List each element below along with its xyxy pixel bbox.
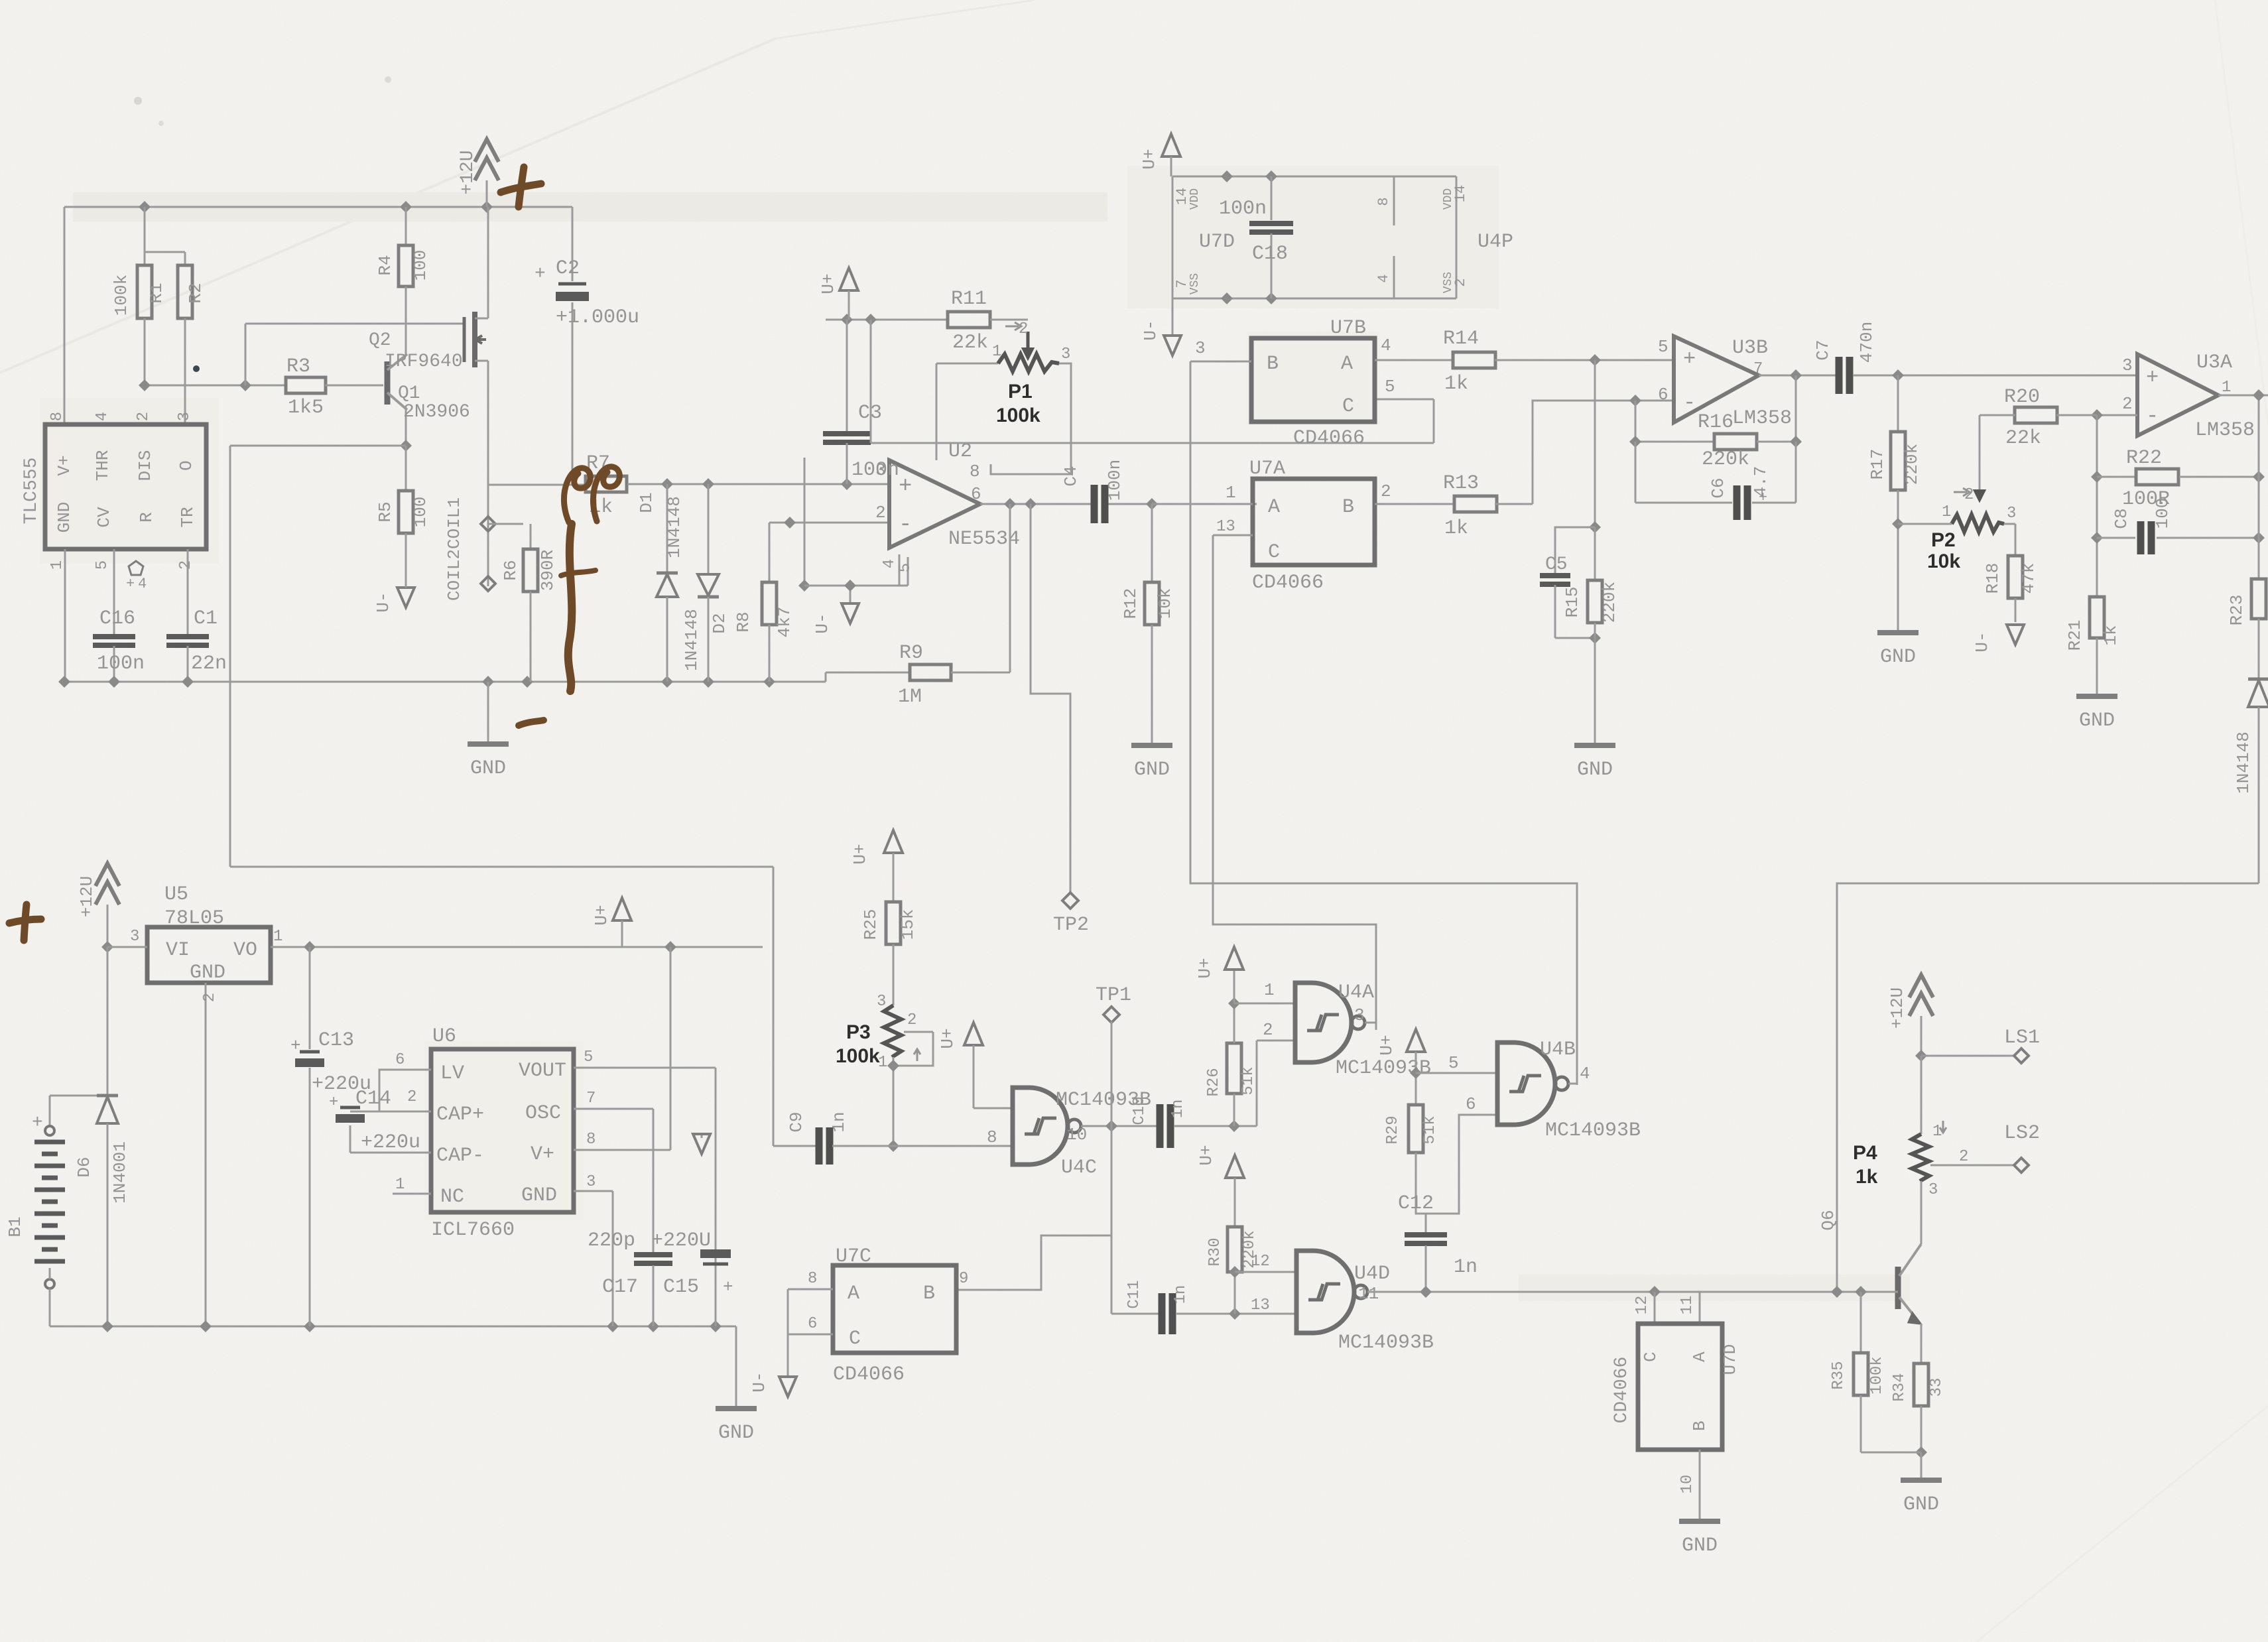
svg-text:U-: U- bbox=[1972, 631, 1992, 652]
svg-text:U-: U- bbox=[812, 613, 832, 633]
svg-text:C5: C5 bbox=[1545, 554, 1568, 575]
svg-text:1n: 1n bbox=[1172, 1285, 1190, 1304]
svg-text:12: 12 bbox=[1633, 1296, 1651, 1315]
svg-text:22n: 22n bbox=[191, 653, 227, 675]
svg-text:2: 2 bbox=[1959, 1148, 1968, 1166]
svg-text:C: C bbox=[1268, 541, 1280, 564]
svg-text:TLC555: TLC555 bbox=[21, 458, 42, 525]
svg-text:-: - bbox=[1683, 391, 1696, 415]
svg-text:U+: U+ bbox=[592, 905, 611, 925]
svg-text:R3: R3 bbox=[286, 355, 310, 378]
svg-text:A: A bbox=[1268, 496, 1280, 519]
svg-text:B: B bbox=[923, 1283, 935, 1305]
svg-text:C: C bbox=[849, 1328, 861, 1350]
svg-text:220k: 220k bbox=[1600, 582, 1619, 623]
svg-text:1: 1 bbox=[273, 928, 283, 946]
svg-text:+: + bbox=[126, 576, 135, 592]
svg-text:4: 4 bbox=[1375, 274, 1392, 283]
svg-text:CAP+: CAP+ bbox=[436, 1104, 484, 1126]
svg-text:15k: 15k bbox=[898, 909, 918, 940]
svg-text:U3B: U3B bbox=[1732, 337, 1768, 359]
svg-text:5: 5 bbox=[584, 1048, 593, 1066]
svg-text:U4D: U4D bbox=[1354, 1263, 1390, 1285]
svg-text:GND: GND bbox=[718, 1422, 754, 1444]
svg-text:ICL7660: ICL7660 bbox=[431, 1219, 515, 1241]
svg-text:11: 11 bbox=[1358, 1284, 1379, 1304]
svg-text:10k: 10k bbox=[1927, 550, 1960, 572]
svg-text:1N4148: 1N4148 bbox=[2234, 731, 2253, 794]
svg-text:1: 1 bbox=[395, 1176, 405, 1194]
svg-text:+: + bbox=[32, 1113, 43, 1133]
svg-text:3: 3 bbox=[877, 993, 886, 1011]
svg-text:R26: R26 bbox=[1205, 1068, 1223, 1096]
svg-text:220k: 220k bbox=[1702, 448, 1749, 471]
svg-text:11: 11 bbox=[1678, 1296, 1696, 1315]
svg-text:3: 3 bbox=[1195, 338, 1206, 358]
svg-text:+: + bbox=[1683, 347, 1696, 371]
svg-text:GND: GND bbox=[1577, 759, 1613, 781]
svg-text:U7D: U7D bbox=[1720, 1344, 1740, 1375]
svg-text:4: 4 bbox=[1381, 336, 1391, 355]
svg-text:100n: 100n bbox=[1105, 460, 1125, 501]
svg-text:100n: 100n bbox=[851, 459, 899, 481]
svg-text:R8: R8 bbox=[733, 611, 753, 632]
svg-text:2: 2 bbox=[1381, 481, 1391, 501]
svg-text:+: + bbox=[723, 1277, 733, 1297]
svg-text:100: 100 bbox=[410, 250, 430, 281]
svg-text:R9: R9 bbox=[899, 642, 923, 664]
svg-text:12: 12 bbox=[1251, 1253, 1270, 1271]
svg-text:VSS: VSS bbox=[1442, 272, 1455, 293]
svg-text:5: 5 bbox=[1658, 337, 1669, 357]
svg-text:GND: GND bbox=[521, 1184, 557, 1207]
svg-text:C13: C13 bbox=[318, 1029, 354, 1052]
svg-text:GND: GND bbox=[470, 757, 506, 780]
svg-text:1: 1 bbox=[1932, 1123, 1942, 1141]
svg-text:6: 6 bbox=[808, 1315, 817, 1333]
svg-text:1n: 1n bbox=[1169, 1100, 1187, 1119]
svg-text:1k: 1k bbox=[1444, 517, 1468, 540]
svg-text:P3: P3 bbox=[846, 1021, 871, 1043]
svg-text:U7A: U7A bbox=[1249, 458, 1285, 480]
svg-text:100k: 100k bbox=[1868, 1356, 1886, 1395]
svg-text:R17: R17 bbox=[1867, 449, 1887, 480]
svg-text:2: 2 bbox=[1019, 320, 1028, 338]
svg-text:R23: R23 bbox=[2227, 595, 2247, 626]
svg-text:C7: C7 bbox=[1813, 340, 1833, 360]
svg-text:GND: GND bbox=[1682, 1535, 1718, 1557]
svg-text:1k: 1k bbox=[1856, 1166, 1878, 1188]
svg-text:1k: 1k bbox=[1444, 373, 1468, 395]
svg-text:1M: 1M bbox=[898, 686, 922, 708]
svg-text:CD4066: CD4066 bbox=[1611, 1357, 1632, 1424]
svg-text:R2: R2 bbox=[186, 283, 206, 303]
svg-text:U-: U- bbox=[1141, 320, 1161, 340]
svg-text:C17: C17 bbox=[602, 1276, 638, 1298]
svg-text:R12: R12 bbox=[1121, 588, 1141, 619]
svg-text:R5: R5 bbox=[375, 501, 395, 522]
svg-text:10: 10 bbox=[1678, 1475, 1696, 1494]
svg-text:R29: R29 bbox=[1384, 1115, 1402, 1144]
svg-text:2N3906: 2N3906 bbox=[403, 402, 470, 422]
svg-text:R18: R18 bbox=[1983, 563, 2003, 594]
svg-text:470n: 470n bbox=[1857, 322, 1877, 363]
svg-text:C2: C2 bbox=[556, 257, 580, 280]
svg-text:5: 5 bbox=[897, 563, 914, 572]
svg-text:D6: D6 bbox=[74, 1157, 94, 1177]
svg-text:R6: R6 bbox=[501, 560, 521, 580]
svg-text:R20: R20 bbox=[2004, 386, 2040, 409]
svg-text:U-: U- bbox=[373, 592, 393, 612]
svg-text:1n: 1n bbox=[1454, 1256, 1478, 1279]
svg-text:MC14093B: MC14093B bbox=[1545, 1119, 1641, 1142]
svg-text:VI: VI bbox=[166, 939, 190, 962]
svg-text:4: 4 bbox=[94, 412, 111, 421]
svg-text:IRF9640: IRF9640 bbox=[385, 351, 463, 372]
svg-text:THR: THR bbox=[93, 450, 113, 481]
svg-text:2: 2 bbox=[907, 1011, 916, 1029]
svg-text:8: 8 bbox=[987, 1127, 997, 1147]
svg-text:CD4066: CD4066 bbox=[1293, 427, 1365, 450]
svg-text:V+: V+ bbox=[531, 1143, 554, 1166]
svg-text:1: 1 bbox=[2222, 379, 2231, 397]
svg-text:R13: R13 bbox=[1443, 472, 1479, 495]
svg-text:4k7: 4k7 bbox=[775, 607, 794, 638]
svg-text:GND: GND bbox=[1880, 646, 1916, 668]
svg-text:A: A bbox=[1341, 353, 1353, 375]
svg-text:4: 4 bbox=[881, 559, 899, 568]
svg-text:1: 1 bbox=[1226, 483, 1236, 503]
svg-text:5: 5 bbox=[1448, 1053, 1459, 1073]
svg-text:U6: U6 bbox=[432, 1025, 456, 1048]
svg-text:8: 8 bbox=[586, 1131, 596, 1149]
svg-text:D1: D1 bbox=[637, 492, 657, 513]
svg-text:2: 2 bbox=[407, 1088, 416, 1106]
svg-text:U+: U+ bbox=[1195, 958, 1215, 978]
svg-text:U7C: U7C bbox=[836, 1245, 871, 1268]
svg-text:3: 3 bbox=[130, 928, 139, 946]
svg-text:C14: C14 bbox=[355, 1088, 391, 1110]
svg-text:2: 2 bbox=[875, 503, 886, 523]
svg-text:1N4148: 1N4148 bbox=[664, 496, 684, 558]
svg-text:3: 3 bbox=[1354, 1005, 1365, 1025]
svg-text:4: 4 bbox=[1580, 1064, 1590, 1084]
svg-text:C9: C9 bbox=[787, 1111, 806, 1132]
svg-text:VSS: VSS bbox=[1188, 273, 1202, 294]
svg-text:C8: C8 bbox=[2111, 508, 2131, 529]
svg-text:2: 2 bbox=[2122, 394, 2133, 414]
svg-text:+12U: +12U bbox=[77, 876, 97, 917]
svg-text:1N4001: 1N4001 bbox=[110, 1141, 130, 1204]
svg-text:+220u: +220u bbox=[361, 1131, 420, 1154]
svg-text:Q2: Q2 bbox=[369, 330, 391, 351]
svg-text:C6: C6 bbox=[1708, 477, 1728, 498]
svg-text:GND: GND bbox=[1134, 759, 1170, 781]
svg-text:GND: GND bbox=[1903, 1493, 1939, 1516]
svg-text:C16: C16 bbox=[99, 607, 135, 630]
svg-text:100n: 100n bbox=[1219, 198, 1267, 220]
svg-text:LS2: LS2 bbox=[2004, 1122, 2040, 1145]
svg-text:TP2: TP2 bbox=[1053, 914, 1089, 936]
svg-text:LM358: LM358 bbox=[2195, 419, 2255, 442]
svg-text:1N4148: 1N4148 bbox=[682, 609, 702, 671]
svg-text:+: + bbox=[535, 264, 546, 284]
svg-text:R: R bbox=[137, 512, 157, 523]
svg-text:R14: R14 bbox=[1443, 328, 1479, 350]
svg-text:CD4066: CD4066 bbox=[833, 1363, 905, 1386]
svg-text:7: 7 bbox=[586, 1090, 596, 1107]
svg-text:22k: 22k bbox=[952, 332, 988, 354]
svg-text:8: 8 bbox=[1375, 197, 1392, 206]
svg-text:VDD: VDD bbox=[1442, 188, 1455, 210]
svg-text:U+: U+ bbox=[1139, 149, 1159, 169]
svg-text:3: 3 bbox=[2122, 355, 2133, 375]
svg-text:C15: C15 bbox=[663, 1276, 699, 1298]
svg-text:Q6: Q6 bbox=[1818, 1210, 1838, 1230]
svg-text:U7B: U7B bbox=[1330, 317, 1366, 340]
svg-text:C12: C12 bbox=[1398, 1192, 1434, 1215]
svg-text:100k: 100k bbox=[111, 275, 131, 316]
svg-text:1: 1 bbox=[1942, 503, 1951, 521]
svg-text:+: + bbox=[290, 1036, 301, 1056]
svg-text:GND: GND bbox=[54, 502, 74, 533]
svg-text:1k: 1k bbox=[2101, 625, 2121, 645]
svg-text:U+: U+ bbox=[1196, 1145, 1216, 1165]
svg-text:U4A: U4A bbox=[1338, 981, 1374, 1004]
svg-text:U7D: U7D bbox=[1199, 231, 1235, 253]
svg-text:U4B: U4B bbox=[1540, 1039, 1576, 1061]
svg-text:2: 2 bbox=[201, 993, 219, 1002]
svg-text:13: 13 bbox=[1216, 518, 1235, 536]
svg-text:LS1: LS1 bbox=[2004, 1027, 2040, 1049]
svg-text:+: + bbox=[1759, 489, 1767, 506]
svg-text:U+: U+ bbox=[818, 273, 838, 294]
svg-text:R4: R4 bbox=[375, 255, 395, 275]
svg-text:R30: R30 bbox=[1206, 1237, 1224, 1266]
svg-text:100: 100 bbox=[2153, 498, 2173, 529]
svg-text:U4P: U4P bbox=[1478, 231, 1513, 253]
svg-text:R1: R1 bbox=[147, 283, 166, 303]
svg-text:U+: U+ bbox=[1377, 1035, 1397, 1055]
svg-text:C1: C1 bbox=[194, 607, 218, 630]
svg-text:MC14093B: MC14093B bbox=[1338, 1332, 1434, 1354]
svg-text:U+: U+ bbox=[938, 1028, 958, 1048]
svg-text:8: 8 bbox=[48, 412, 66, 421]
svg-text:C11: C11 bbox=[1125, 1280, 1143, 1308]
svg-text:1n: 1n bbox=[829, 1111, 849, 1132]
svg-text:100: 100 bbox=[410, 497, 430, 528]
svg-text:8: 8 bbox=[970, 462, 980, 481]
svg-text:3: 3 bbox=[176, 412, 194, 421]
svg-text:B1: B1 bbox=[5, 1216, 25, 1237]
svg-text:33: 33 bbox=[1928, 1378, 1946, 1397]
svg-text:Q1: Q1 bbox=[398, 383, 420, 404]
svg-text:4: 4 bbox=[138, 576, 147, 592]
svg-text:-: - bbox=[899, 513, 912, 538]
svg-text:1: 1 bbox=[48, 560, 66, 570]
svg-text:R16: R16 bbox=[1698, 411, 1733, 434]
svg-text:B: B bbox=[1267, 353, 1279, 375]
svg-text:+: + bbox=[899, 474, 912, 499]
svg-text:9: 9 bbox=[959, 1270, 968, 1288]
svg-text:+12U: +12U bbox=[458, 150, 478, 194]
svg-text:100k: 100k bbox=[996, 405, 1040, 426]
svg-text:390R: 390R bbox=[538, 550, 558, 591]
svg-text:C: C bbox=[1641, 1352, 1661, 1362]
svg-text:220p: 220p bbox=[588, 1230, 635, 1252]
svg-text:+: + bbox=[2146, 365, 2159, 390]
svg-text:CV: CV bbox=[94, 507, 114, 528]
svg-text:3: 3 bbox=[2007, 505, 2016, 523]
svg-text:OSC: OSC bbox=[525, 1102, 561, 1125]
svg-text:220k: 220k bbox=[1902, 444, 1922, 485]
svg-text:P4: P4 bbox=[1853, 1142, 1877, 1164]
svg-text:3: 3 bbox=[586, 1173, 596, 1191]
svg-text:R11: R11 bbox=[951, 288, 987, 310]
svg-text:6: 6 bbox=[971, 484, 981, 504]
svg-text:R25: R25 bbox=[861, 909, 881, 940]
svg-text:CAP-: CAP- bbox=[436, 1145, 484, 1167]
svg-text:+1.000u: +1.000u bbox=[556, 306, 639, 329]
svg-text:R22: R22 bbox=[2126, 447, 2162, 470]
svg-text:13: 13 bbox=[1251, 1296, 1270, 1314]
svg-text:TR: TR bbox=[178, 507, 198, 527]
svg-text:C10: C10 bbox=[1131, 1096, 1149, 1125]
svg-text:CD4066: CD4066 bbox=[1252, 572, 1324, 594]
svg-text:LV: LV bbox=[440, 1062, 464, 1085]
svg-text:6: 6 bbox=[1466, 1094, 1476, 1114]
svg-text:1k5: 1k5 bbox=[288, 397, 324, 419]
svg-text:NC: NC bbox=[440, 1186, 464, 1208]
svg-text:V+: V+ bbox=[54, 455, 74, 475]
svg-text:VO: VO bbox=[233, 939, 257, 962]
svg-text:U+: U+ bbox=[850, 844, 870, 864]
svg-text:COIL2COIL1: COIL2COIL1 bbox=[444, 497, 464, 601]
svg-text:8: 8 bbox=[808, 1270, 817, 1288]
svg-text:B: B bbox=[1690, 1421, 1710, 1431]
svg-text:A: A bbox=[848, 1283, 859, 1305]
svg-text:TP1: TP1 bbox=[1096, 984, 1131, 1007]
svg-text:47k: 47k bbox=[2019, 563, 2039, 594]
svg-text:D2: D2 bbox=[710, 613, 729, 633]
svg-text:LM358: LM358 bbox=[1732, 407, 1792, 430]
svg-text:R35: R35 bbox=[1830, 1361, 1848, 1389]
svg-text:C: C bbox=[1342, 395, 1354, 418]
svg-text:2: 2 bbox=[135, 412, 153, 421]
svg-text:5: 5 bbox=[94, 560, 111, 570]
svg-text:51k: 51k bbox=[1239, 1066, 1257, 1095]
svg-text:+12U: +12U bbox=[1887, 987, 1907, 1029]
svg-text:R34: R34 bbox=[1891, 1373, 1909, 1401]
svg-text:B: B bbox=[1342, 496, 1354, 519]
svg-text:O: O bbox=[176, 460, 196, 471]
svg-text:51k: 51k bbox=[1421, 1115, 1439, 1144]
svg-text:2: 2 bbox=[1263, 1020, 1273, 1040]
svg-text:10: 10 bbox=[1066, 1125, 1087, 1145]
svg-text:22k: 22k bbox=[2005, 427, 2041, 450]
svg-text:-: - bbox=[2146, 404, 2159, 428]
svg-text:6: 6 bbox=[395, 1051, 405, 1069]
svg-text:VOUT: VOUT bbox=[519, 1060, 566, 1082]
svg-text:100k: 100k bbox=[836, 1045, 880, 1067]
svg-text:A: A bbox=[1690, 1352, 1710, 1362]
svg-text:3: 3 bbox=[1061, 346, 1070, 363]
svg-text:GND: GND bbox=[190, 962, 225, 984]
svg-text:P1: P1 bbox=[1008, 381, 1033, 403]
svg-text:R15: R15 bbox=[1562, 587, 1582, 618]
svg-text:10k: 10k bbox=[1155, 588, 1175, 619]
svg-text:+220U: +220U bbox=[651, 1230, 711, 1252]
svg-text:3: 3 bbox=[1928, 1181, 1938, 1199]
svg-text:100n: 100n bbox=[97, 653, 145, 675]
svg-text:+: + bbox=[329, 1094, 338, 1111]
svg-text:5: 5 bbox=[1385, 377, 1395, 397]
svg-text:U-: U- bbox=[749, 1371, 769, 1392]
svg-text:1: 1 bbox=[1264, 980, 1275, 1000]
svg-text:GND: GND bbox=[2079, 710, 2115, 732]
svg-text:6: 6 bbox=[1658, 385, 1669, 405]
svg-text:DIS: DIS bbox=[135, 450, 155, 481]
svg-text:U3A: U3A bbox=[2196, 351, 2232, 374]
svg-text:2: 2 bbox=[177, 560, 195, 570]
svg-text:U4C: U4C bbox=[1061, 1157, 1097, 1179]
svg-text:R21: R21 bbox=[2065, 620, 2085, 651]
svg-text:C18: C18 bbox=[1252, 243, 1288, 265]
svg-text:1: 1 bbox=[992, 343, 1001, 361]
svg-text:P2: P2 bbox=[1931, 529, 1956, 551]
svg-text:VDD: VDD bbox=[1188, 188, 1202, 210]
svg-text:U5: U5 bbox=[164, 883, 188, 906]
